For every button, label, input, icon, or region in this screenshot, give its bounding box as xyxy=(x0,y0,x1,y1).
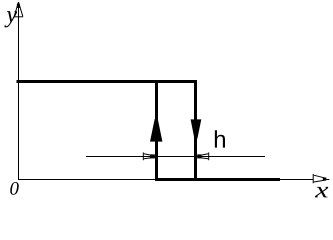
left vertical segment (switch-on branch) xyxy=(155,80,158,181)
top thick segment (upper level of relay characteristic) xyxy=(17,80,196,83)
right vertical segment (switch-off branch) xyxy=(194,80,197,181)
right dimension arrowhead (points left at right vertical) xyxy=(197,152,209,160)
label y xyxy=(4,11,17,27)
y-axis xyxy=(18,3,19,180)
x-axis xyxy=(18,179,313,180)
dimension line for h xyxy=(86,156,265,157)
x-axis arrowhead xyxy=(313,174,329,183)
label h xyxy=(215,130,225,147)
left dimension arrowhead (points right at left vertical) xyxy=(143,152,155,160)
label x xyxy=(315,187,328,198)
up arrow on left vertical xyxy=(150,119,162,142)
bottom thick segment (lower level of relay characteristic) xyxy=(155,178,280,181)
y-axis arrowhead xyxy=(14,2,24,17)
down arrow on right vertical xyxy=(191,119,202,138)
label 0 (origin) xyxy=(10,182,19,195)
